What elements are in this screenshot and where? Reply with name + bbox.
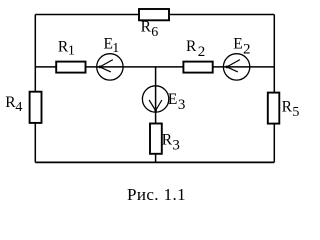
svg-text:R: R xyxy=(186,38,197,55)
svg-text:R: R xyxy=(141,18,152,35)
svg-text:3: 3 xyxy=(172,138,180,154)
svg-text:3: 3 xyxy=(178,97,186,113)
svg-text:E: E xyxy=(168,91,177,108)
svg-text:R: R xyxy=(282,99,293,116)
svg-text:Рис. 1.1: Рис. 1.1 xyxy=(127,185,186,204)
svg-text:2: 2 xyxy=(198,44,206,60)
svg-text:4: 4 xyxy=(15,100,22,115)
svg-text:5: 5 xyxy=(292,105,299,120)
svg-text:6: 6 xyxy=(151,25,158,40)
svg-text:E: E xyxy=(233,36,242,53)
svg-text:1: 1 xyxy=(112,41,119,56)
svg-text:1: 1 xyxy=(68,44,75,59)
svg-text:2: 2 xyxy=(243,42,251,58)
svg-text:R: R xyxy=(162,132,173,149)
